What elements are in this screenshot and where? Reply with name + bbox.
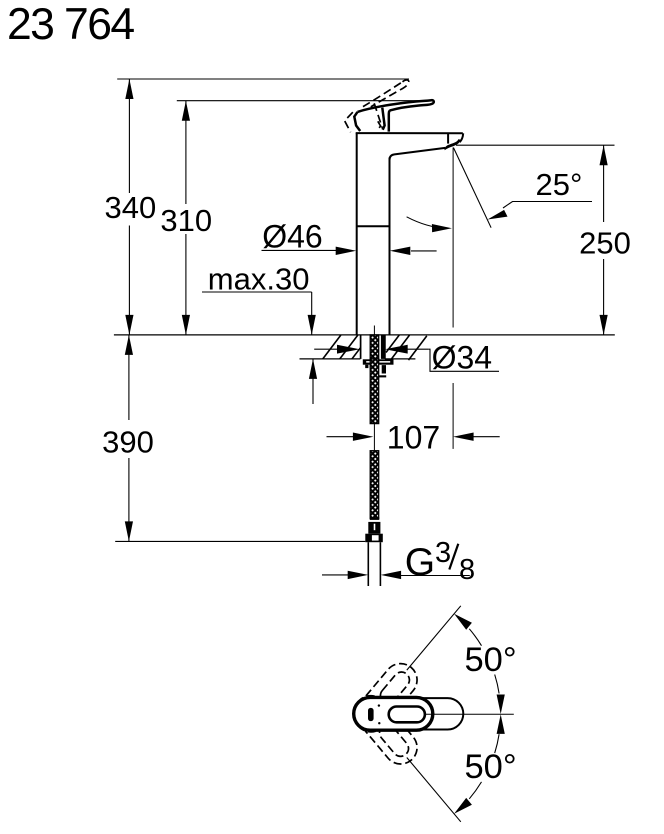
50 degree line lower (407, 758, 461, 822)
dimension 340 (128, 79, 130, 335)
dimension 390 (128, 335, 130, 542)
svg-text:Ø46: Ø46 (262, 219, 322, 255)
deck hatch right (386, 335, 427, 360)
arc arrow upper (at 50 line) (454, 614, 472, 630)
lever pivot block (354, 112, 360, 131)
handle end cap mark (368, 708, 374, 721)
extension line (spout tip, 250) (456, 144, 615, 146)
centerline (top view) (425, 713, 514, 715)
spout barrel (top view) (355, 698, 463, 729)
svg-text:390: 390 (102, 425, 154, 460)
deck hatch left (323, 335, 361, 359)
dimension 25 degrees (453, 148, 491, 228)
lever handle (solid) (354, 100, 433, 131)
deck underside left (300, 358, 361, 360)
dimension 250 (603, 145, 605, 335)
spout tip extension line (vertical) (452, 148, 454, 449)
extension line (solid lever tip, 310) (177, 100, 430, 102)
flexible hose upper (370, 359, 379, 424)
svg-text:50°: 50° (465, 748, 517, 786)
deck underside right (385, 358, 416, 360)
curved arrow to vertical line (407, 217, 446, 228)
flexible hose lower (370, 451, 379, 519)
shank right wall (381, 335, 385, 359)
svg-text:G: G (405, 541, 435, 584)
svg-text:23 764: 23 764 (7, 0, 134, 49)
hex nut (365, 534, 383, 543)
svg-text:107: 107 (387, 419, 440, 455)
centerline faucet axis (373, 326, 375, 451)
faucet body column (356, 133, 464, 335)
handle (top view) (354, 697, 433, 730)
svg-text:340: 340 (105, 190, 157, 225)
spout aerator tip (445, 139, 461, 150)
dimension 310 (185, 101, 187, 335)
arc arrow lower (at 50 line) (454, 798, 472, 814)
dashed handle position upper (rotated -50) (348, 657, 424, 739)
G3/8 tail tube (368, 542, 380, 586)
extension line top (raised lever tip, 340) (117, 78, 409, 80)
locknut left nub (365, 365, 368, 368)
centerline arrows (497, 695, 505, 715)
svg-text:310: 310 (160, 203, 212, 238)
mounting hole edges (361, 335, 385, 359)
dimension 107 (327, 436, 500, 438)
svg-text:Ø34: Ø34 (432, 339, 492, 375)
threaded shank in deck (370, 335, 379, 359)
countertop deck line (114, 334, 615, 336)
hose end extension line (115, 540, 365, 542)
svg-text:8: 8 (459, 554, 475, 586)
svg-text:3: 3 (435, 537, 451, 569)
mounting flange under deck (363, 359, 394, 364)
angle arc upper (469, 629, 481, 646)
svg-text:25°: 25° (536, 167, 583, 202)
svg-text:250: 250 (579, 226, 631, 261)
dashed handle position lower (rotated +50) (348, 689, 424, 771)
hose end fitting (370, 517, 379, 520)
dimension G 3/8 (322, 574, 470, 577)
svg-text:max.30: max.30 (208, 262, 310, 297)
50 degree line upper (407, 606, 461, 670)
angle arc lower (495, 734, 499, 753)
lever raised (dashed) (345, 80, 409, 132)
locknut right piece (382, 365, 386, 373)
svg-text:50°: 50° (465, 641, 517, 679)
handle inner hole (389, 707, 425, 723)
